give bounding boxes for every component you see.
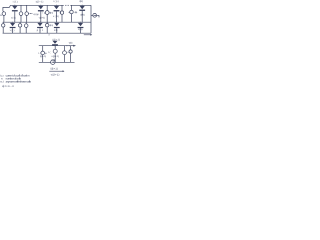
svg-text:v(N): v(N) bbox=[53, 15, 59, 18]
equivalent source bottom bbox=[51, 60, 55, 64]
svg-text:m: m bbox=[0, 14, 2, 17]
svg-text:i(β+1): i(β+1) bbox=[36, 1, 44, 4]
svg-text:v(1): v(1) bbox=[10, 29, 15, 32]
svg-text:d(N): d(N) bbox=[80, 14, 85, 17]
svg-text:d(m): d(m) bbox=[49, 11, 53, 14]
svg-text:i(p): i(p) bbox=[54, 0, 59, 3]
wire mid bottom rail bbox=[39, 61, 75, 63]
current arrow under bottom rail right bbox=[84, 34, 91, 36]
cell source A2 bbox=[19, 5, 23, 22]
svg-text:β+1: β+1 bbox=[37, 29, 44, 32]
svg-text:i(β+1): i(β+1) bbox=[50, 68, 58, 71]
cell source B1 bbox=[2, 22, 5, 33]
cell source M2 below diode bbox=[53, 46, 57, 63]
cell source A4 bbox=[45, 5, 49, 22]
svg-text:v(1): v(1) bbox=[11, 17, 16, 20]
cell source A1 bbox=[2, 7, 6, 22]
cell source A5 bbox=[60, 5, 63, 22]
diode E3 row2 bbox=[54, 22, 60, 28]
diode E2 row2 bbox=[37, 22, 43, 28]
svg-text:t(: t( bbox=[48, 51, 51, 54]
diode D2 row1 bbox=[38, 5, 44, 12]
fraction bar with arrow bbox=[49, 70, 63, 72]
arrow above equivalent source bbox=[51, 59, 54, 61]
cell source B2 bbox=[18, 22, 21, 33]
ellipsis row1 cells bbox=[28, 12, 32, 15]
cell source M3 bbox=[41, 46, 45, 63]
diode E1 row2 bbox=[10, 22, 16, 28]
svg-text:i(1): i(1) bbox=[13, 1, 18, 4]
svg-text:β(a−1): β(a−1) bbox=[40, 55, 46, 58]
svg-text:s,t: s,t bbox=[0, 80, 3, 84]
svg-text:d(N): d(N) bbox=[78, 28, 83, 31]
diode D3 row1 bbox=[54, 5, 60, 12]
wire mid top rail bbox=[39, 45, 74, 47]
pack source tap right bbox=[91, 13, 99, 17]
svg-text:v(β+1): v(β+1) bbox=[39, 16, 45, 19]
diode M1 mid bbox=[52, 41, 58, 47]
cell source M4 bbox=[63, 46, 67, 63]
cell source B4 bbox=[46, 22, 49, 33]
diode D1 row1 bbox=[12, 5, 18, 12]
svg-text:v(m): v(m) bbox=[69, 42, 73, 45]
arrowhead mid top rail bbox=[73, 45, 76, 47]
ellipsis mid top rail bbox=[66, 44, 70, 47]
wire right vertical bbox=[90, 5, 92, 33]
cell source M5 bbox=[69, 46, 72, 63]
svg-text:)a: )a bbox=[45, 52, 48, 55]
wire bottom rail bbox=[3, 32, 91, 34]
cell source A6 bbox=[70, 5, 73, 22]
svg-text:any name within these n cells: any name within these n cells bbox=[6, 80, 32, 84]
arrowhead in equivalent source bbox=[53, 61, 54, 63]
cell source B3 bbox=[24, 22, 28, 33]
svg-text:a) t = s ... n: a) t = s ... n bbox=[2, 84, 14, 88]
svg-text:i(N): i(N) bbox=[79, 0, 83, 3]
wire left input bbox=[3, 5, 11, 7]
svg-text:n: n bbox=[49, 33, 51, 36]
cell source A3 bbox=[25, 5, 29, 22]
wire middle rail bbox=[3, 21, 91, 23]
svg-text:d(m): d(m) bbox=[74, 11, 77, 14]
wire top rail row1 bbox=[11, 4, 92, 6]
diode E4 row2 bbox=[78, 22, 84, 28]
svg-text:d(m): d(m) bbox=[50, 24, 53, 27]
diode D4 row1 bbox=[79, 5, 85, 11]
svg-text:v(a)p: v(a)p bbox=[33, 13, 39, 16]
svg-text:v(β+1): v(β+1) bbox=[51, 74, 60, 77]
ellipsis top rail bbox=[65, 4, 69, 7]
svg-text:t(: t( bbox=[38, 52, 41, 55]
arrowhead in pack source bbox=[95, 15, 96, 16]
svg-text:v(β+1): v(β+1) bbox=[51, 55, 59, 58]
svg-text:KD: KD bbox=[54, 29, 58, 32]
